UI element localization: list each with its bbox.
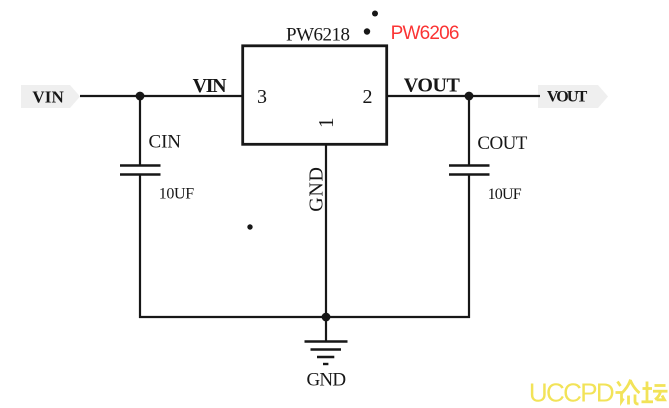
svg-text:COUT: COUT: [477, 133, 527, 154]
svg-text:UCCPD: UCCPD: [529, 377, 615, 407]
svg-text:GND: GND: [307, 370, 347, 391]
svg-text:VIN: VIN: [32, 88, 64, 107]
svg-text:PW6218: PW6218: [286, 25, 350, 46]
svg-text:VOUT: VOUT: [404, 75, 461, 97]
svg-text:10UF: 10UF: [488, 186, 522, 203]
svg-text:VIN: VIN: [193, 75, 228, 97]
svg-text:3: 3: [257, 86, 267, 108]
svg-text:10UF: 10UF: [159, 186, 194, 203]
svg-text:1: 1: [314, 118, 338, 129]
svg-text:2: 2: [363, 86, 373, 108]
svg-text:VOUT: VOUT: [547, 89, 588, 106]
svg-text:PW6206: PW6206: [391, 23, 460, 44]
svg-text:CIN: CIN: [149, 132, 182, 153]
svg-text:GND: GND: [306, 167, 328, 212]
